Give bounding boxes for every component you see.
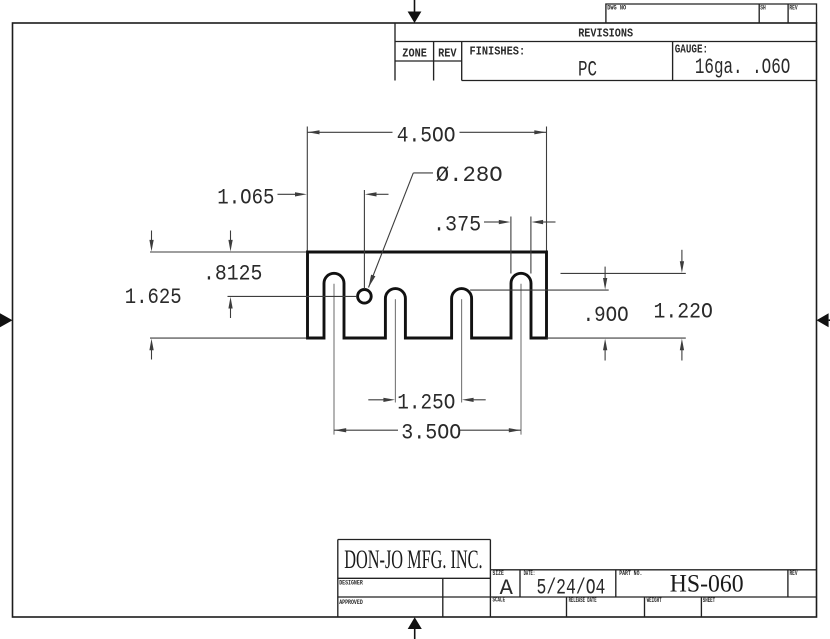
top strip DWG NO / SH / REV box <box>606 4 817 23</box>
svg-text:SHEET: SHEET <box>703 597 716 604</box>
hole center line <box>228 295 357 297</box>
dimension 1.065 <box>217 184 388 288</box>
dimension .375 <box>433 211 556 273</box>
svg-text:16ga. .O6O: 16ga. .O6O <box>695 55 790 80</box>
zone label <box>402 48 427 61</box>
dimension 1.250 <box>368 389 485 415</box>
hole <box>358 290 372 304</box>
svg-text:DATE:: DATE: <box>524 570 536 577</box>
svg-text:REV: REV <box>789 5 797 12</box>
bottom center margin marker <box>408 617 422 639</box>
svg-text:REV: REV <box>790 570 798 577</box>
size cell <box>493 570 514 601</box>
svg-text:Ø.28O: Ø.28O <box>436 162 503 188</box>
right bottom extension line <box>547 337 686 339</box>
svg-text:1.25O: 1.25O <box>397 389 455 415</box>
svg-text:1.O65: 1.O65 <box>217 184 274 210</box>
date cell <box>524 570 606 601</box>
svg-text:FINISHES:: FINISHES: <box>470 46 526 59</box>
svg-text:ZONE: ZONE <box>402 48 427 61</box>
finishes label and value PC <box>470 46 598 83</box>
svg-text:1.22O: 1.22O <box>654 298 713 324</box>
svg-text:HS-060: HS-060 <box>670 571 744 598</box>
svg-text:PC: PC <box>578 58 597 83</box>
dimension .8125 <box>203 231 262 319</box>
dimension 4.500 <box>307 123 546 251</box>
svg-text:DESIGNER: DESIGNER <box>339 580 363 587</box>
part outline (bracket with 4 slots) <box>308 252 547 338</box>
svg-text:.375: .375 <box>433 211 481 237</box>
left bottom extension line <box>150 337 306 339</box>
right center margin marker <box>817 313 830 327</box>
dimension diameter .280 leader <box>369 162 503 288</box>
rev cell <box>790 570 798 577</box>
svg-text:REVISIONS: REVISIONS <box>578 28 633 41</box>
svg-text:APPROVED: APPROVED <box>339 599 363 606</box>
svg-text:WEIGHT: WEIGHT <box>647 597 662 604</box>
dimension 1.220 <box>561 250 713 361</box>
left top extension line <box>150 251 306 253</box>
left center margin marker <box>0 313 13 327</box>
designer cell <box>339 578 443 617</box>
title block row line <box>338 596 817 598</box>
dimension 1.625 <box>125 231 182 360</box>
svg-text:SCALE: SCALE <box>493 597 506 604</box>
svg-text:.9OO: .9OO <box>583 302 629 328</box>
part no cell <box>619 570 743 598</box>
svg-text:PART NO.: PART NO. <box>619 570 642 577</box>
rev label <box>438 48 457 61</box>
dimension 3.500 <box>334 420 521 446</box>
svg-text:.8125: .8125 <box>203 261 262 287</box>
revisions block frame <box>395 23 817 81</box>
svg-text:RELEASE DATE: RELEASE DATE <box>569 597 597 604</box>
top center margin marker <box>408 0 422 23</box>
svg-text:3.5OO: 3.5OO <box>401 420 461 446</box>
svg-text:REV: REV <box>438 48 457 61</box>
svg-text:DWG NO: DWG NO <box>607 5 626 12</box>
gauge label and value <box>675 44 791 81</box>
svg-text:SH: SH <box>760 5 766 12</box>
size date part row top line <box>490 570 816 597</box>
slot center extension lines <box>334 284 521 435</box>
svg-text:1.625: 1.625 <box>125 284 182 310</box>
revisions header text <box>578 28 633 41</box>
svg-text:4.5OO: 4.5OO <box>397 123 456 149</box>
dimension .900 <box>470 267 628 361</box>
svg-text:DON-JO MFG. INC.: DON-JO MFG. INC. <box>344 545 482 574</box>
title block company box <box>338 540 491 618</box>
bottom row cells <box>493 597 716 618</box>
